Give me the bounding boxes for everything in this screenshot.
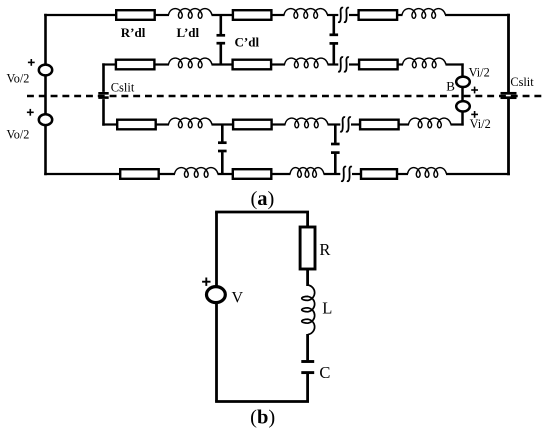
plus sign of lower Vo/2	[27, 109, 34, 116]
inductor L'dl row1 section1	[169, 9, 213, 19]
resistor row2 section3	[359, 60, 398, 70]
capacitor C'dl rows3-4 right	[331, 125, 340, 175]
wire left column mid	[44, 75, 47, 115]
inductor row4 section3	[408, 168, 447, 178]
wire row4 L2-node	[324, 173, 341, 175]
wire row2 R2-L2	[270, 63, 285, 65]
wire row3 R2-L2	[271, 123, 286, 125]
inductor row4 section2	[290, 168, 324, 178]
wire Vi column top	[461, 63, 464, 77]
wire row2 right	[446, 63, 464, 65]
wire (b) R-L	[306, 269, 309, 286]
wire row3 left corner	[102, 123, 118, 125]
wire row1 break-R3	[349, 14, 361, 16]
wire row4 R2-L2	[271, 173, 291, 175]
resistor row3 section3	[360, 120, 399, 130]
svg-text:Cslit: Cslit	[510, 75, 534, 89]
capacitor C'dl rows3-4 left	[218, 125, 227, 175]
capacitor C'dl rows1-2 left	[217, 15, 226, 65]
wire row1 R3-L3	[396, 14, 402, 16]
wire (b) left lower	[215, 302, 218, 401]
svg-text:R: R	[319, 240, 330, 259]
wire row4 break-R3	[352, 173, 362, 175]
wire row3 R1-L1	[155, 123, 169, 125]
wire row3 L2-node	[328, 123, 341, 125]
svg-text:(a): (a)	[250, 188, 274, 210]
svg-text:C’dl: C’dl	[235, 34, 260, 49]
wire row4 R3-L3	[397, 173, 409, 175]
inductor row2 section1	[169, 58, 213, 68]
svg-text:L’dl: L’dl	[177, 25, 200, 40]
svg-text:Vo/2: Vo/2	[7, 128, 30, 142]
line break row2	[338, 57, 349, 72]
dashed symmetry line	[27, 95, 546, 98]
line break row4	[341, 167, 352, 182]
capacitor Cslit right plates	[501, 93, 517, 97]
wire row1 left	[44, 14, 117, 16]
capacitor C plates	[301, 362, 314, 373]
svg-text:(b): (b)	[250, 406, 275, 428]
wire right column upper	[507, 14, 510, 92]
wire row3 break-R3	[351, 123, 362, 125]
wire row3 L1-node	[212, 123, 235, 125]
wire left Cslit stem upper	[102, 63, 105, 92]
line break row1	[338, 8, 349, 23]
wire row1 R2-L2	[271, 14, 285, 16]
wire row4 L1-node	[218, 173, 235, 175]
plus sign of V	[202, 278, 210, 286]
plus sign of lower Vi/2	[471, 111, 478, 118]
inductor row1 section2	[284, 9, 327, 19]
svg-text:Vo/2: Vo/2	[7, 72, 30, 86]
wire row2 R1-L1	[154, 63, 169, 65]
inductor row2 section2	[285, 58, 328, 68]
svg-text:Cslit: Cslit	[111, 80, 135, 94]
svg-text:Vi/2: Vi/2	[469, 65, 490, 79]
resistor row4 section3	[361, 169, 397, 179]
wire row3 right	[451, 123, 464, 125]
capacitor C'dl rows1-2 right	[330, 15, 339, 65]
capacitor Cslit left plates	[98, 93, 108, 97]
inductor row2 section3	[403, 58, 446, 68]
resistor R'dl row1 section1	[116, 10, 155, 20]
wire (b) right upper	[306, 212, 309, 229]
line break row3	[340, 117, 351, 132]
inductor row3 section2	[285, 118, 328, 128]
wire (b) top	[215, 211, 309, 214]
voltage source Vo/2 lower	[39, 114, 52, 125]
wire (b) C-bottom	[306, 374, 309, 402]
resistor row2 section1	[116, 60, 154, 70]
svg-text:C: C	[319, 363, 330, 382]
resistor row3 section2	[233, 120, 272, 130]
svg-text:Vi/2: Vi/2	[470, 117, 491, 131]
voltage source Vi/2 lower	[456, 101, 470, 111]
inductor row3 section3	[409, 118, 451, 128]
wire row4 R1-L1	[158, 173, 175, 175]
wire row1 right	[445, 14, 510, 16]
wire row1 R1-L1	[154, 14, 169, 16]
wire Vi column bottom	[461, 111, 464, 126]
wire left column bottom	[44, 125, 47, 175]
wire left Cslit stem lower	[102, 99, 105, 126]
resistor row1 section3	[359, 10, 398, 20]
voltage source Vi/2 upper	[456, 77, 470, 87]
wire Vi column link	[461, 87, 464, 102]
svg-text:L: L	[322, 299, 332, 318]
wire (b) L-C	[306, 334, 309, 360]
resistor row1 section2	[233, 10, 272, 20]
resistor row4 section2	[233, 169, 271, 179]
wire (b) bottom	[215, 400, 309, 403]
svg-text:R’dl: R’dl	[121, 25, 146, 40]
wire row3 R3-L3	[398, 123, 409, 125]
resistor row4 section1	[120, 169, 159, 179]
wire row1 L1-node	[212, 14, 234, 16]
svg-text:V: V	[232, 290, 244, 307]
inductor row1 section3	[402, 9, 445, 19]
wire row2 left corner	[102, 63, 117, 65]
plus sign of upper Vo/2	[28, 59, 35, 66]
wire row2 L1-node	[212, 63, 234, 65]
svg-text:B: B	[446, 78, 455, 93]
voltage source V	[207, 287, 226, 303]
inductor L	[302, 285, 315, 335]
wire row2 R3-L3	[397, 63, 403, 65]
wire row1 L2-node	[327, 14, 338, 16]
inductor row4 section1	[175, 168, 219, 178]
resistor R	[300, 227, 315, 269]
inductor row3 section1	[169, 118, 213, 128]
wire row2 L2-node	[328, 63, 339, 65]
wire row2 break-R3	[349, 63, 361, 65]
wire (b) left upper	[215, 212, 218, 287]
wire row4 left	[44, 173, 121, 175]
wire left column top (Vo/2 feed)	[44, 14, 47, 65]
wire right column lower	[507, 99, 510, 175]
resistor row2 section2	[233, 60, 272, 70]
voltage source Vo/2 upper	[39, 65, 52, 76]
resistor row3 section1	[117, 120, 156, 130]
wire row4 right	[446, 173, 510, 175]
plus sign of upper Vi/2	[471, 87, 478, 94]
